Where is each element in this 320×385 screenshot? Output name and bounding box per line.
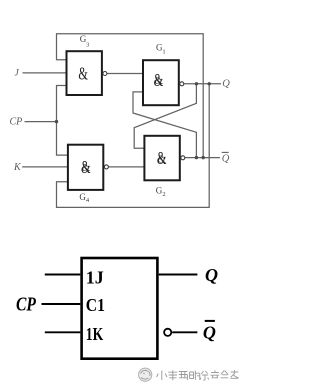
wire Q cross-couple to G2 upper input (134, 84, 196, 149)
label & of G3 (78, 65, 88, 84)
svg-text:1K: 1K (86, 325, 104, 344)
svg-text:1: 1 (162, 48, 165, 55)
wire C1 input of symbol (42, 303, 81, 305)
inversion bubble Qbar of symbol (164, 329, 171, 336)
inversion bubble G1 output (180, 82, 184, 86)
svg-text:1J: 1J (86, 268, 104, 288)
junction node Q to bottom feedback (208, 82, 211, 85)
pin label C1 (86, 295, 105, 315)
wire CP input (25, 121, 57, 123)
wire G4 output to G2 input (108, 166, 144, 168)
wire Qbar output of symbol (172, 331, 197, 333)
wire J input (23, 72, 67, 74)
overbar of symbol Qbar (205, 320, 215, 322)
svg-text:CP: CP (16, 293, 37, 315)
wire Qbar feedback top: from node Qbar up and across to G3 input (57, 34, 204, 158)
label & of G1 (154, 72, 164, 91)
wire K input (22, 166, 68, 168)
inversion bubble G3 output (103, 72, 107, 76)
flip-flop symbol box (82, 258, 158, 359)
svg-text:&: & (78, 65, 88, 84)
svg-text:Q: Q (222, 154, 230, 165)
pin label 1K (86, 325, 104, 344)
wire 1J input of symbol (45, 274, 81, 276)
label & of G2 (157, 150, 167, 169)
svg-text:&: & (158, 154, 167, 166)
wire Q output of symbol (159, 274, 198, 276)
NAND gate G4 box (68, 145, 103, 190)
wire G3 output to G1 input (107, 73, 143, 75)
svg-text:&: & (82, 162, 91, 174)
wire Qbar cross-couple to G1 lower input (133, 92, 196, 158)
junction node Qbar to top feedback (202, 156, 205, 159)
label & of G4 (81, 159, 91, 178)
wire node Qbar to Qbar terminal (185, 157, 220, 159)
junction CP node (55, 120, 58, 123)
wire 1K input of symbol (45, 331, 81, 333)
svg-text:3: 3 (86, 41, 89, 48)
NAND gate G3 box (67, 51, 102, 95)
svg-text:2: 2 (162, 191, 165, 198)
wire node Q to Q terminal (184, 83, 221, 85)
svg-text:Q: Q (222, 79, 230, 90)
label CP of symbol (16, 293, 37, 315)
inversion bubble G2 output (181, 156, 185, 160)
wire CP to G3 lower input (57, 86, 68, 156)
watermark logo (139, 368, 152, 381)
wire Q feedback bottom: from G4 lower input down and across to node Q (57, 84, 210, 208)
junction node Qbar to cross-couple (195, 156, 198, 159)
svg-text:Q: Q (203, 322, 216, 342)
watermark text (157, 370, 239, 380)
svg-text:Q: Q (205, 265, 218, 285)
overbar of Qbar (222, 151, 229, 153)
NAND gate G1 box (143, 60, 179, 105)
svg-text:CP: CP (10, 116, 23, 127)
svg-text:&: & (155, 75, 164, 87)
svg-text:C1: C1 (86, 295, 105, 315)
inversion bubble G4 output (104, 165, 108, 169)
junction node Q to cross-couple (195, 82, 198, 85)
NAND gate G2 box (144, 136, 179, 181)
svg-text:K: K (13, 162, 22, 173)
